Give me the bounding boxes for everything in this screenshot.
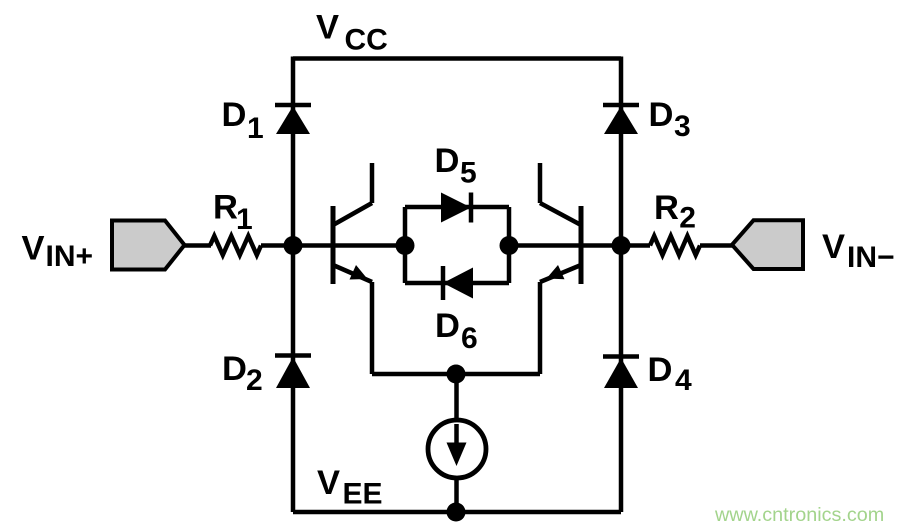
- label D3: [649, 96, 691, 143]
- svg-text:1: 1: [236, 203, 253, 236]
- wire node A to Q1 base: [293, 243, 333, 248]
- diode D5: [441, 193, 471, 223]
- wire Q1 emitter to tail: [370, 282, 375, 374]
- wire VIN+ to R1: [184, 243, 211, 248]
- wire right branch VCC to VEE: [619, 57, 624, 513]
- diode D3: [603, 105, 639, 134]
- svg-text:6: 6: [461, 322, 478, 355]
- svg-text:V: V: [316, 9, 339, 47]
- svg-text:V: V: [822, 228, 845, 266]
- current source I1: [428, 420, 486, 478]
- svg-text:D: D: [435, 307, 460, 345]
- diode D1: [275, 105, 311, 134]
- svg-text:www.cntronics.com: www.cntronics.com: [714, 504, 884, 526]
- svg-text:2: 2: [246, 364, 263, 397]
- label VIN-: [822, 228, 895, 274]
- label D4: [648, 351, 693, 397]
- svg-text:4: 4: [675, 364, 692, 397]
- input pin VIN-: [732, 220, 803, 269]
- wire R2 to VIN-: [700, 243, 733, 248]
- resistor R1: [210, 236, 261, 255]
- svg-text:D: D: [649, 96, 674, 134]
- wire VCC top rail: [293, 56, 621, 61]
- wire node B to R2: [621, 243, 650, 248]
- wire D5/D6 left vertical: [403, 207, 408, 283]
- resistor R2: [650, 236, 700, 255]
- transistor Q1: [333, 203, 372, 284]
- wire current source to VEE rail: [454, 478, 459, 512]
- svg-text:2: 2: [679, 202, 696, 235]
- wire Q2 emitter to tail: [538, 282, 543, 374]
- junction node A: [284, 236, 303, 255]
- wire D5/D6 right node to Q2 base: [509, 243, 581, 248]
- label D2: [222, 350, 263, 397]
- transistor Q2: [540, 203, 581, 284]
- svg-text:5: 5: [460, 157, 477, 190]
- label D6: [435, 307, 478, 355]
- svg-text:IN+: IN+: [46, 240, 94, 273]
- input pin VIN+: [112, 221, 185, 270]
- label VCC: [316, 9, 388, 57]
- svg-text:CC: CC: [345, 24, 388, 57]
- wire emitter tail join: [372, 372, 540, 377]
- wire Q2 base to node B: [581, 243, 621, 248]
- junction D5/D6 right node: [500, 236, 519, 255]
- wire R1 to node A: [261, 243, 293, 248]
- diode D6: [443, 266, 473, 300]
- svg-text:1: 1: [247, 112, 264, 145]
- label R2: [654, 189, 696, 235]
- label D1: [222, 96, 264, 145]
- label VEE: [317, 464, 383, 511]
- svg-text:3: 3: [674, 110, 691, 143]
- svg-text:D: D: [648, 351, 673, 389]
- wire Q1 base to D5/D6 left node: [333, 243, 405, 248]
- wire D6 bottom row: [405, 281, 509, 286]
- diode D2: [275, 356, 311, 389]
- wire D5 top row: [405, 205, 509, 210]
- label VIN+: [22, 230, 94, 274]
- wire left branch VCC to VEE: [291, 57, 296, 513]
- wire Q1 collector stub: [370, 163, 375, 203]
- svg-text:IN−: IN−: [847, 241, 895, 274]
- svg-text:V: V: [22, 230, 45, 268]
- diode D4: [603, 357, 639, 389]
- svg-text:D: D: [435, 142, 460, 180]
- wire VEE bottom rail: [293, 510, 621, 515]
- junction D5/D6 left node: [396, 236, 415, 255]
- svg-text:D: D: [222, 96, 247, 134]
- wire Q2 collector stub: [538, 163, 543, 203]
- label D5: [435, 142, 477, 190]
- label R1: [213, 189, 253, 237]
- junction VEE node: [447, 503, 466, 522]
- wire tail to current source: [454, 374, 459, 420]
- wire D5/D6 right vertical: [507, 207, 512, 283]
- svg-text:D: D: [222, 350, 247, 388]
- junction tail node: [447, 365, 466, 384]
- svg-text:V: V: [317, 464, 340, 502]
- svg-text:EE: EE: [343, 478, 383, 511]
- svg-text:R: R: [213, 189, 238, 227]
- junction node B: [612, 236, 631, 255]
- svg-text:R: R: [654, 189, 679, 227]
